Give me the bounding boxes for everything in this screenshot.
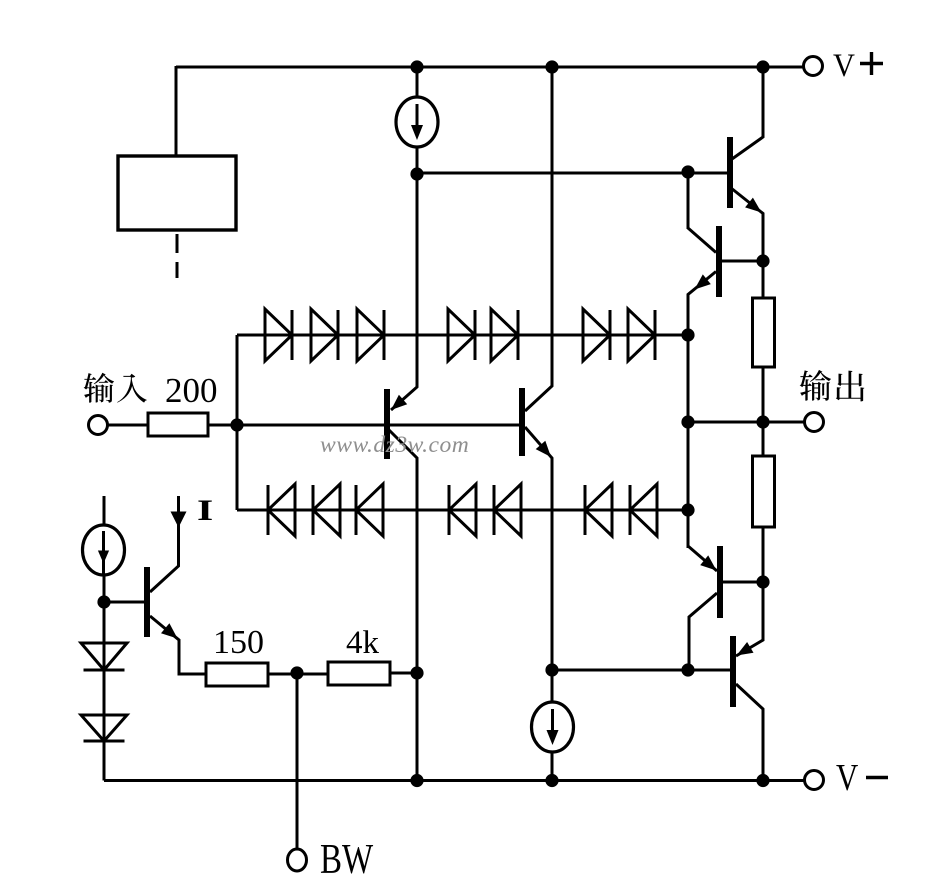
resistor R4k: [328, 662, 390, 685]
transistor QC bar: [144, 567, 150, 637]
transistor Q5 emitter: [688, 546, 717, 571]
wire CS3 to bottom rail: [551, 751, 554, 780]
node top rail junction A: [410, 60, 423, 73]
transistor QA collector: [389, 430, 417, 780]
node diode-row-2 right end: [681, 503, 694, 516]
transistor Q6 collector: [736, 684, 763, 780]
node mid-horizontal junction: [681, 165, 694, 178]
transistor Q5 base wire: [723, 581, 763, 584]
dashed stub below box: [176, 234, 179, 278]
diode D2e (row 2, left-pointing): [494, 484, 521, 536]
node Q3 emitter / Q4 base: [756, 254, 769, 267]
node output junction left: [681, 415, 694, 428]
diode D1b (row 1, right-pointing): [311, 309, 338, 361]
svg-text:4k: 4k: [346, 625, 380, 661]
diode D2c (row 2, left-pointing): [356, 484, 383, 536]
transistor Q6 emitter: [736, 582, 763, 656]
diode D2g (row 2, left-pointing): [630, 484, 657, 536]
wire output: [688, 421, 804, 424]
svg-text:200: 200: [165, 371, 218, 410]
transistor QB bar: [519, 388, 525, 456]
wire BW drop: [296, 673, 299, 849]
terminal V-: [805, 771, 824, 790]
node bottom rail x552: [545, 774, 558, 787]
resistor R2: [753, 456, 775, 527]
transistor Q3 collector: [732, 67, 763, 159]
wire stub above CS2: [103, 496, 106, 526]
svg-text:150: 150: [213, 624, 264, 661]
label I: [197, 494, 213, 527]
label 输出 (output): [800, 370, 865, 401]
terminal V+: [804, 57, 823, 76]
wire top rail V+: [176, 66, 803, 69]
wire R4k to x417: [390, 672, 417, 675]
wire CS1 bottom stub: [416, 146, 419, 174]
node bottom rail x417: [410, 774, 423, 787]
diode D9 (down-pointing): [81, 715, 127, 741]
wire input terminal to R200: [107, 424, 149, 427]
svg-text:V: V: [836, 756, 858, 799]
transistor QC base wire: [104, 601, 145, 604]
transistor Q3 bar: [727, 137, 733, 208]
diode D1d (row 1, right-pointing): [448, 309, 475, 361]
node top rail junction C: [756, 60, 769, 73]
svg-text:V: V: [833, 47, 855, 83]
wire Q4 node to R1: [762, 261, 765, 299]
transistor Q5 bar: [717, 546, 723, 618]
transistor QB collector: [525, 67, 552, 411]
terminal input: [89, 416, 108, 435]
svg-text:I: I: [197, 494, 213, 527]
wire CS2 down the left branch: [103, 574, 106, 781]
transistor QC collector with current arrow I: [150, 496, 187, 592]
wire left drop to box: [175, 66, 178, 156]
svg-text:BW: BW: [320, 836, 373, 883]
diode D1a (row 1, right-pointing): [265, 309, 292, 361]
resistor R1: [753, 298, 775, 367]
node 4k junction on x417: [410, 666, 423, 679]
svg-text:www.dz3w.com: www.dz3w.com: [320, 432, 469, 458]
terminal BW: [288, 849, 307, 871]
wire R2 to Q5 base node: [762, 527, 765, 582]
wire diode row 1: [237, 334, 688, 337]
label 200: [165, 371, 218, 410]
diode D2a (row 2, left-pointing): [268, 484, 295, 536]
transistor Q6 bar: [730, 636, 736, 707]
resistor R200: [148, 413, 208, 436]
resistor R150: [206, 663, 268, 686]
current source CS2: [83, 525, 125, 575]
transistor QA emitter from CS1 line: [391, 174, 417, 410]
transistor Q4 bar: [716, 226, 722, 297]
label V-: [836, 756, 888, 799]
node below CS1: [410, 167, 423, 180]
wire diode row 2: [237, 509, 688, 512]
current source CS3: [532, 702, 574, 752]
wire R200 to junction and Q_A/Q_B base: [208, 424, 522, 427]
transistor Q6 base wire: [552, 669, 731, 672]
diode D1g (row 1, right-pointing): [628, 309, 655, 361]
node Q5 base / R2 bottom: [756, 575, 769, 588]
transistor Q3 emitter: [731, 188, 763, 261]
diode D8 (down-pointing): [81, 643, 127, 670]
node Q6 base junction: [681, 663, 694, 676]
watermark: [320, 432, 469, 458]
terminal output: [805, 413, 824, 432]
node bottom rail x763: [756, 774, 769, 787]
transistor Q4 emitter: [688, 272, 716, 336]
node QC base junction: [97, 595, 110, 608]
wire CS1 top stub: [416, 67, 419, 98]
wire R1 to output node: [762, 367, 765, 422]
transistor QA bar: [384, 389, 390, 459]
diode D2f (row 2, left-pointing): [585, 484, 612, 536]
box (unlabeled block): [118, 156, 236, 230]
diode D2d (row 2, left-pointing): [449, 484, 476, 536]
transistor Q4 base wire: [721, 260, 763, 263]
node above CS3: [545, 663, 558, 676]
diode D1f (row 1, right-pointing): [583, 309, 610, 361]
node diode-row-1 right end: [681, 328, 694, 341]
wire R150 to R4k: [268, 673, 328, 676]
label 4k: [346, 625, 380, 661]
wire mid horizontal to Q3 base: [417, 172, 729, 175]
transistor Q4 collector: [688, 228, 716, 253]
node top rail junction B: [545, 60, 558, 73]
wire left vertical input bus: [236, 335, 239, 510]
node output junction right: [756, 415, 769, 428]
label 输入 (input): [84, 373, 147, 403]
diode D1e (row 1, right-pointing): [491, 309, 518, 361]
wire output node to R2: [762, 422, 765, 456]
label 150: [213, 624, 264, 661]
transistor QB emitter: [525, 427, 552, 704]
transistor QC emitter: [150, 616, 206, 674]
node BW junction: [290, 666, 303, 679]
label BW: [320, 836, 373, 883]
current source CS1: [396, 97, 438, 147]
wire bottom rail V-: [104, 779, 804, 782]
label V+: [833, 47, 883, 83]
diode D2b (row 2, left-pointing): [313, 484, 340, 536]
diode D1c (row 1, right-pointing): [357, 309, 384, 361]
node input junction: [230, 418, 243, 431]
wire x688 upper segment: [687, 172, 690, 229]
wire x688 mid segment: [687, 335, 690, 548]
transistor Q5 collector: [689, 593, 717, 671]
